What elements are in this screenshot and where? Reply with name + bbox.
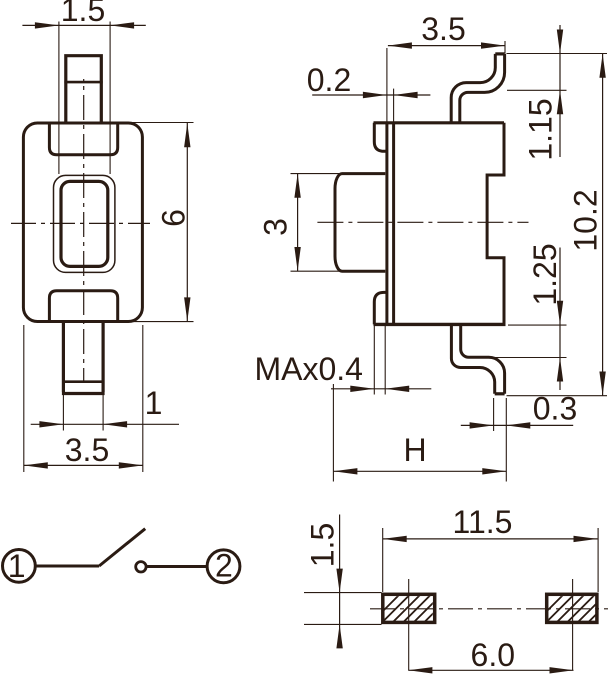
dimension 1.15 line and arrows xyxy=(559,25,561,157)
dimension 10.2 arrows xyxy=(599,54,605,396)
dimension H arrows xyxy=(333,468,506,474)
button inner outline (top view) xyxy=(61,181,108,266)
dimension 3.5 line (side view) xyxy=(388,45,505,47)
dimension 1.5 (footprint) line and arrows xyxy=(339,515,341,648)
top terminal notch xyxy=(49,124,117,155)
dimension 1.5 extension lines xyxy=(59,22,110,175)
svg-text:2: 2 xyxy=(215,548,233,584)
lower lead outer contour xyxy=(451,324,494,393)
lower lead inner contour xyxy=(461,324,505,393)
dimension 1.15 lower extension xyxy=(507,89,567,91)
body left edge (side view) xyxy=(392,123,395,325)
dimension 3 arrows xyxy=(294,174,300,271)
top terminal tab xyxy=(64,56,103,123)
vertical centerline (top view) xyxy=(83,79,85,382)
svg-text:3.5: 3.5 xyxy=(65,432,109,468)
cover flange line xyxy=(385,123,388,325)
button stem (side view) xyxy=(335,174,385,272)
svg-text:11.5: 11.5 xyxy=(453,504,513,540)
dimension 3.5 right extension (side view) xyxy=(504,41,506,54)
svg-text:1.15: 1.15 xyxy=(523,98,559,160)
upper lead foot top edge xyxy=(495,52,504,55)
dimension 1.5 line xyxy=(22,24,145,26)
right pad center line xyxy=(572,579,574,671)
dimension 6 line xyxy=(186,123,188,322)
dimension 3.5 extension lines (top view) xyxy=(24,325,143,472)
bottom terminal tab inner line xyxy=(65,380,102,383)
upper lead outer contour xyxy=(451,54,495,124)
upper lead inner contour xyxy=(460,54,505,124)
dimension 1 extension lines xyxy=(63,395,103,431)
svg-text:3: 3 xyxy=(258,218,294,236)
dimension 0.2 right extension xyxy=(393,89,395,123)
pad top/bottom reference lines xyxy=(304,593,382,625)
dimension 3.5 arrows (side view) xyxy=(388,42,505,48)
svg-text:H: H xyxy=(403,432,426,468)
dimension 0.3 line xyxy=(461,424,573,426)
dimension 11.5 extension lines xyxy=(383,528,598,592)
lower lead foot bottom edge xyxy=(495,392,505,395)
svg-text:1: 1 xyxy=(8,548,26,584)
button outer outline (top view) xyxy=(54,175,115,272)
top terminal tab inner line xyxy=(64,81,102,84)
svg-text:6: 6 xyxy=(156,209,192,227)
switch blade xyxy=(99,529,145,566)
dimension 0.2 left extension / flange face extension xyxy=(386,48,388,123)
body top edge (side view) xyxy=(374,121,505,124)
dimension 1.5 arrows xyxy=(35,22,134,28)
left pad outline xyxy=(383,594,435,622)
dimension 11.5 arrows xyxy=(383,536,598,542)
dimension 1 line xyxy=(31,423,179,425)
right pad hatch xyxy=(524,594,609,634)
upper foot top extension (for 3.5/1.15/10.2) xyxy=(507,53,608,55)
wire from terminal 1 xyxy=(35,565,99,568)
svg-text:1.5: 1.5 xyxy=(61,0,105,28)
body right edge with steps xyxy=(487,123,504,325)
dimension H left extension xyxy=(332,384,334,482)
lower foot bottom extension (for 10.2) xyxy=(507,395,608,397)
dimension 3 extension lines xyxy=(291,174,342,272)
dimension 6 extension lines xyxy=(132,123,194,322)
dimension H line xyxy=(333,470,506,472)
svg-text:6.0: 6.0 xyxy=(471,637,515,673)
dimension MAx0.4 line xyxy=(331,388,431,390)
terminal 2 circle xyxy=(207,550,240,583)
svg-text:1.25: 1.25 xyxy=(527,243,563,305)
top-left tab (side view) xyxy=(374,123,387,152)
svg-text:MAx0.4: MAx0.4 xyxy=(254,351,362,387)
footprint centerline xyxy=(366,608,608,610)
bottom-left tab (side view) xyxy=(374,292,387,324)
dimension 6 arrows xyxy=(184,123,190,321)
dimension MAx0.4 arrows xyxy=(350,386,409,392)
svg-text:1.5: 1.5 xyxy=(305,523,341,567)
svg-text:3.5: 3.5 xyxy=(421,11,465,47)
dimension 1.25 line and arrows xyxy=(559,248,561,391)
switch body outline (top view) xyxy=(23,123,142,322)
horizontal centerline (top view) xyxy=(11,222,150,224)
dimension 0.3 extension lines xyxy=(494,398,507,482)
dimension 10.2 line xyxy=(602,54,604,396)
bottom terminal notch xyxy=(49,291,117,321)
wire to terminal 2 xyxy=(147,565,208,568)
dimension 11.5 line xyxy=(383,538,598,540)
terminal 1 circle xyxy=(3,550,36,583)
svg-text:0.3: 0.3 xyxy=(533,391,577,427)
left pad hatch xyxy=(360,594,463,634)
svg-text:0.2: 0.2 xyxy=(307,62,351,98)
dimension 1.25 extensions xyxy=(493,325,567,357)
dimension 0.2 line xyxy=(312,94,430,96)
svg-text:1: 1 xyxy=(145,385,163,421)
right pad outline xyxy=(547,594,597,622)
left pad center line xyxy=(408,579,410,671)
dimension MAx0.4 extension lines xyxy=(374,326,385,395)
dimension 0.3 arrows xyxy=(470,422,531,428)
bottom terminal tab xyxy=(62,322,105,394)
dimension 0.2 arrows xyxy=(363,92,418,98)
dimension 1 arrows xyxy=(39,421,127,427)
switch contact circle xyxy=(136,562,146,572)
dimension 3 line xyxy=(297,174,299,272)
body bottom edge (side view) xyxy=(374,323,506,326)
dimension 6.0 line xyxy=(408,669,573,671)
dimension 6.0 arrows xyxy=(408,667,573,673)
dimension 3.5 arrows (top view) xyxy=(24,462,143,468)
dimension 3.5 line (top view) xyxy=(24,464,143,466)
horizontal centerline (side view) xyxy=(317,221,528,223)
svg-text:10.2: 10.2 xyxy=(568,189,604,251)
